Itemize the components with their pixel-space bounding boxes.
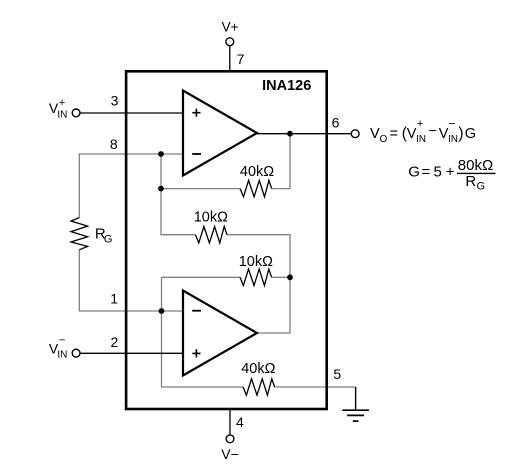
resistor RG label — [95, 226, 113, 246]
svg-text:10kΩ: 10kΩ — [239, 254, 273, 270]
svg-text:G: G — [465, 126, 476, 142]
svg-text:O: O — [380, 134, 388, 145]
junction node feedback R1 tee — [158, 186, 164, 192]
wire V+ supply to pin 7 — [229, 46, 231, 72]
junction node B pin1 rail — [159, 308, 165, 314]
svg-text:80kΩ: 80kΩ — [458, 157, 493, 174]
svg-text:−: − — [448, 116, 455, 130]
wire 10k resistor R3 left and right connections — [162, 276, 291, 278]
svg-text:IN: IN — [57, 109, 67, 120]
resistor R2 10k zigzag — [195, 227, 227, 243]
op-amp U2 minus input mark — [192, 310, 201, 312]
wire node A vertical rail to 10k resistor R2 — [161, 154, 195, 235]
wire pin1 from RG bottom to op-amp U2 inverting input — [79, 250, 183, 311]
wire pin8 feedback from RG top to op-amp U1 inverting input — [79, 154, 183, 218]
wire feedback through R1 to output node — [161, 134, 290, 189]
label VIN+ — [49, 97, 68, 120]
svg-text:V+: V+ — [222, 19, 239, 34]
svg-text:3: 3 — [111, 93, 119, 109]
svg-text:7: 7 — [237, 51, 245, 67]
svg-text:10kΩ: 10kΩ — [194, 209, 228, 225]
svg-text:G: G — [104, 233, 113, 245]
terminal VIN+ — [72, 109, 80, 117]
svg-text:): ) — [458, 125, 463, 142]
svg-text:IN: IN — [448, 134, 458, 145]
wire pin 4 to V- supply — [229, 409, 231, 434]
svg-text:6: 6 — [332, 115, 340, 131]
svg-text:INA126: INA126 — [262, 78, 311, 94]
wire pin 5 drop to ground — [355, 387, 357, 410]
svg-text:5: 5 — [333, 366, 341, 382]
svg-text:R: R — [465, 173, 476, 190]
wire vertical rail node B to 40k resistor R4 — [162, 277, 244, 387]
terminal V+ — [226, 38, 234, 46]
label VIN- — [49, 334, 68, 360]
op-amp U2 — [183, 291, 257, 376]
svg-text:40kΩ: 40kΩ — [241, 361, 275, 377]
equation VO = (VIN+ - VIN-) G — [370, 116, 476, 145]
IC body INA126 box — [126, 71, 327, 409]
svg-text:5: 5 — [434, 163, 442, 180]
terminal VO output — [351, 130, 359, 138]
svg-text:V−: V− — [221, 446, 239, 462]
op-amp U2 plus input mark — [192, 349, 200, 357]
svg-text:−: − — [59, 334, 65, 346]
wire op-amp U1 output to pin 6 VO terminal — [257, 133, 351, 135]
svg-text:V: V — [370, 126, 380, 142]
svg-text:8: 8 — [110, 136, 118, 152]
svg-text:+: + — [417, 118, 423, 130]
junction node C R3 tee — [287, 274, 293, 280]
wire R4 right end to pin 5 — [275, 386, 356, 388]
terminal VIN- — [72, 349, 80, 357]
svg-text:IN: IN — [57, 350, 67, 361]
svg-text:G: G — [408, 163, 420, 180]
resistor R3 10k zigzag — [240, 269, 272, 285]
terminal V- — [226, 435, 234, 443]
svg-text:40kΩ: 40kΩ — [240, 164, 274, 180]
svg-text:IN: IN — [416, 134, 426, 145]
resistor RG external gain resistor zigzag — [71, 218, 88, 250]
svg-text:+: + — [446, 163, 455, 180]
resistor R4 40k bottom zigzag — [243, 379, 275, 395]
op-amp U1 plus input mark — [192, 109, 200, 117]
svg-text:+: + — [59, 97, 65, 109]
svg-text:=: = — [422, 163, 431, 180]
svg-text:=: = — [390, 126, 398, 142]
wire from R2 right end down to node C — [227, 235, 290, 278]
wire VIN+ to pin 3 op-amp U1 non-inverting input — [80, 112, 183, 114]
op-amp U1 minus input mark — [192, 153, 201, 155]
junction node output tee — [287, 131, 293, 137]
svg-text:G: G — [477, 180, 486, 192]
svg-text:1: 1 — [110, 291, 118, 307]
wire VIN- to pin 2 op-amp U2 non-inverting input — [80, 352, 183, 354]
svg-text:2: 2 — [111, 334, 119, 350]
op-amp U1 — [183, 91, 257, 176]
svg-text:4: 4 — [236, 414, 244, 430]
svg-text:−: − — [429, 124, 437, 140]
ground — [342, 410, 369, 421]
junction node A pin8 rail — [158, 151, 164, 157]
wire op-amp U2 output up to node C — [257, 277, 290, 333]
equation G = 5 + 80k/RG — [408, 157, 495, 193]
resistor R1 40k top zigzag — [240, 180, 272, 196]
